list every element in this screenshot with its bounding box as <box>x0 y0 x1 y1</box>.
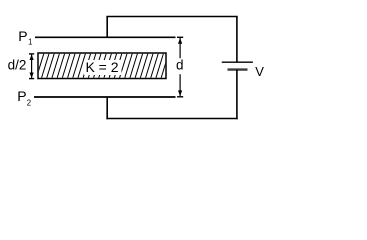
label K = 2 (value of dielectric constant) <box>84 59 122 75</box>
svg-text:d: d <box>176 58 184 73</box>
plate P1 (top capacitor plate) <box>35 36 176 38</box>
plate P2 (bottom capacitor plate) <box>34 96 176 98</box>
wire (bottom horizontal run) <box>106 118 237 120</box>
wire (right vertical, battery - down) <box>236 70 238 120</box>
svg-text:1: 1 <box>28 37 32 46</box>
wire (top plate tap, vertical up) <box>106 17 108 38</box>
wire (bottom plate tap, vertical down) <box>106 97 108 119</box>
wire (top horizontal run) <box>106 16 237 18</box>
svg-text:P: P <box>18 28 27 44</box>
dimension d (plate separation, double arrow with gap) <box>177 37 183 97</box>
svg-text:d/2: d/2 <box>8 58 27 73</box>
label P1 <box>18 28 32 46</box>
svg-text:V: V <box>255 64 264 79</box>
svg-text:2: 2 <box>27 98 31 107</box>
svg-text:P: P <box>17 88 26 104</box>
svg-text:K = 2: K = 2 <box>85 59 118 75</box>
label P2 <box>17 88 31 107</box>
wire (right vertical, top wire to battery +) <box>236 17 238 63</box>
dielectric slab K=2 (hatched) <box>36 53 174 79</box>
dimension d/2 (slab thickness, double arrow) <box>29 54 34 79</box>
battery V (cell) <box>222 62 253 69</box>
